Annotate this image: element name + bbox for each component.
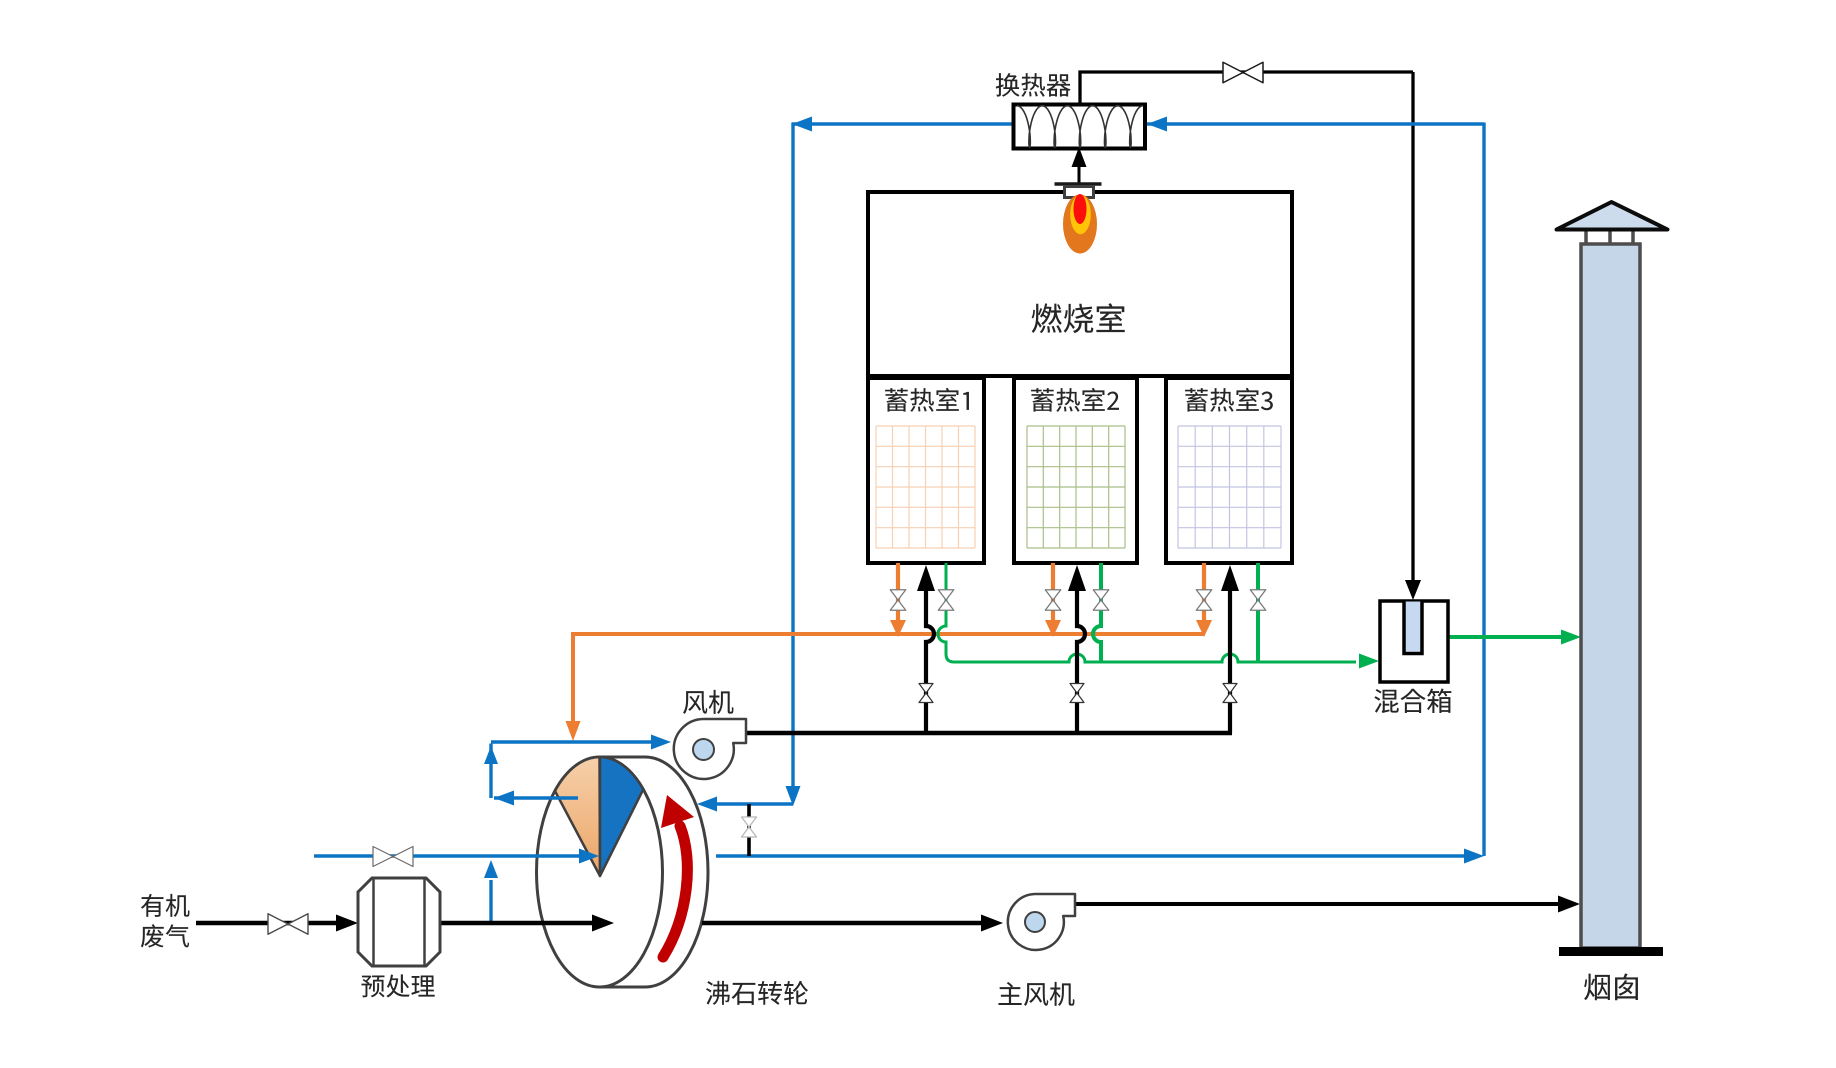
wire wheel to main fan <box>702 921 984 925</box>
arrowhead blue up corner <box>484 746 498 764</box>
wire burner feed <box>1078 152 1081 192</box>
valve chamber valve x=1101 <box>1093 590 1109 611</box>
wire green collector <box>938 563 1356 662</box>
valve waste inlet valve <box>268 914 308 935</box>
chimney cap <box>1557 202 1668 230</box>
valve V-top <box>1223 62 1263 83</box>
burner flame <box>1063 195 1097 254</box>
arrowhead black up into chamber x=926 <box>917 565 935 591</box>
arrowhead green into chimney <box>1561 630 1581 645</box>
wire burner gas line top <box>1080 72 1413 105</box>
arrowhead blue into HX <box>1147 117 1167 132</box>
arrowhead blue left into wheel back <box>697 797 717 812</box>
arrowhead blue into fan <box>651 735 671 750</box>
label chamber2 <box>1031 388 1119 412</box>
wire green drop chamber3 <box>1256 563 1260 662</box>
combustion chamber box 燃烧室 <box>868 192 1292 376</box>
valve fresh air valve <box>373 847 413 867</box>
burner flange <box>1055 182 1102 185</box>
wire black chamber riser x=1230 <box>1228 589 1232 733</box>
wire blue HX left outlet <box>792 122 1016 125</box>
arrowhead burner feed up <box>1072 147 1087 167</box>
wire blue desorb to fan <box>491 740 655 743</box>
wire orange drop chamber x=1204 <box>1202 563 1206 622</box>
valve black valve x=1077 <box>1070 684 1084 703</box>
wire black bypass with closed valve <box>747 804 751 856</box>
wire black chamber riser x=1077 <box>1077 589 1085 733</box>
wheel rotation red arrow <box>663 826 687 957</box>
wheel blue sector <box>600 757 643 876</box>
arrowhead orange drop arrow x=898 <box>890 620 906 637</box>
label chamber3 <box>1185 388 1273 412</box>
label HX <box>996 73 1071 97</box>
arrowhead green into mixing box <box>1359 654 1379 669</box>
arrowhead blue into wheel tip <box>579 849 599 864</box>
pretreatment unit 预处理 <box>358 878 440 966</box>
arrowhead into main fan <box>981 915 1003 932</box>
label organic waste gas 1 <box>141 894 190 917</box>
arrowhead black up into chamber x=1077 <box>1068 565 1086 591</box>
label pretreatment <box>361 974 434 997</box>
wire blue desorb elbow <box>489 744 492 799</box>
label main fan <box>998 982 1074 1006</box>
heat exchanger coil <box>1017 106 1143 148</box>
wire blue left downcomer <box>791 123 794 789</box>
label chamber1 <box>885 388 969 412</box>
valve chamber valve x=1258 <box>1250 590 1266 611</box>
arrowhead blue up into fresh line <box>484 860 498 878</box>
label chimney <box>1584 974 1638 1001</box>
valve chamber valve x=1053 <box>1045 590 1061 611</box>
valve black valve x=926 <box>919 684 933 703</box>
chimney collar <box>1586 230 1633 244</box>
arrowhead into mixing box <box>1405 580 1421 600</box>
arrowhead waste into pretreat <box>336 915 358 932</box>
wire black chamber riser x=926 <box>926 589 934 733</box>
wire blue wheel outlet to riser <box>716 854 1466 857</box>
wire blue right riser <box>1482 123 1485 857</box>
wire black drop to mixing box <box>1411 72 1414 582</box>
label combustion chamber <box>1032 303 1125 333</box>
arrowhead black up into chamber x=1230 <box>1221 565 1239 591</box>
wire orange drop chamber x=898 <box>896 563 900 622</box>
label fan <box>683 690 733 714</box>
arrowhead blue right to riser <box>1464 849 1484 864</box>
valve chamber valve x=946 <box>938 590 954 611</box>
fan 风机 <box>674 719 746 779</box>
zeolite wheel body 沸石转轮 <box>600 757 709 987</box>
wire green to chimney <box>1449 635 1562 639</box>
arrowhead blue out of wheel <box>494 791 514 806</box>
chimney column 烟囱 <box>1581 244 1640 948</box>
regenerator chamber box 蓄热室3 <box>1166 378 1292 563</box>
mixing box 混合箱 <box>1380 601 1448 682</box>
wire blue riser from waste line <box>489 880 492 923</box>
wire blue HX right inlet <box>1143 122 1484 125</box>
arrowhead orange drop arrow x=1053 <box>1045 620 1061 637</box>
regenerator chamber box 蓄热室2 <box>1014 378 1137 563</box>
heat exchanger box 换热器 <box>1014 105 1146 149</box>
arrowhead orange drop arrow x=1204 <box>1196 620 1212 637</box>
label zeolite wheel <box>706 981 808 1005</box>
wire black manifold from fan <box>746 731 1232 735</box>
main fan 主风机 <box>1008 894 1075 950</box>
chimney base <box>1559 947 1663 956</box>
arrowhead orange down to desorb line <box>566 721 581 741</box>
wire blue hot air into wheel left <box>712 802 793 805</box>
wire pretreat to wheel <box>440 921 594 925</box>
wire orange header <box>573 634 1204 723</box>
grid of chamber 1 <box>876 426 975 548</box>
arrowhead into wheel center <box>592 915 614 932</box>
arrowhead blue down to wheel <box>786 786 801 806</box>
wire blue fresh air line <box>314 854 579 857</box>
valve chamber valve x=1204 <box>1196 590 1212 611</box>
arrowhead blue left at corner <box>792 117 812 132</box>
wire green drop chamber2 <box>1093 563 1101 662</box>
grid of chamber 3 <box>1178 426 1281 548</box>
regenerator chamber box 蓄热室1 <box>868 378 984 563</box>
valve closed bypass valve <box>742 817 757 837</box>
wire orange drop chamber x=1053 <box>1051 563 1055 622</box>
wire waste gas inlet <box>196 921 338 925</box>
valve black valve x=1230 <box>1223 684 1237 703</box>
wire main fan to chimney <box>1074 902 1560 906</box>
label mixing box <box>1374 688 1451 713</box>
zeolite wheel front face <box>537 757 663 987</box>
grid of chamber 2 <box>1027 426 1125 548</box>
label organic waste gas 2 <box>141 924 189 947</box>
wire blue desorb from wheel <box>494 796 578 799</box>
arrowhead into chimney <box>1558 896 1580 913</box>
valve chamber valve x=898 <box>890 590 906 611</box>
